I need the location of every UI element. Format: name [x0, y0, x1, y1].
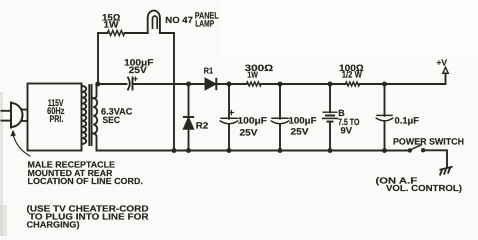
svg-text:25V: 25V — [129, 65, 148, 75]
svg-text:PRI.: PRI. — [49, 114, 63, 125]
svg-text:25V: 25V — [240, 128, 259, 138]
wire top rail: 300 ohm to 100 ohm resistor — [261, 83, 346, 85]
svg-text:25V: 25V — [291, 126, 310, 136]
rectifier R1 — [204, 66, 217, 90]
wire bottom rail — [97, 150, 409, 152]
capacitor C4 0.1uF — [376, 84, 419, 151]
wire top rail: R1 to 300 ohm resistor — [216, 83, 246, 85]
power switch S1 — [393, 137, 464, 153]
wire top rail: 100 ohm to +V terminal — [360, 73, 446, 84]
terminal +V — [437, 57, 449, 73]
transformer T1 primary winding — [82, 86, 86, 144]
wire resistor to lamp — [125, 32, 148, 34]
wire top rail: secondary to series capacitor — [97, 83, 127, 85]
battery B 7.5 to 9V — [323, 84, 360, 151]
node: battery bottom junction — [328, 148, 333, 153]
svg-text:0.1μF: 0.1μF — [395, 115, 420, 125]
wire plug to transformer primary box — [21, 110, 27, 122]
wire switch to ground — [423, 150, 447, 167]
svg-text:9V: 9V — [341, 126, 353, 136]
wire lamp to right vertical — [160, 32, 174, 34]
wire lamp loop left vertical — [97, 33, 99, 84]
svg-text:1/2 W: 1/2 W — [342, 70, 362, 80]
svg-text:VOL. CONTROL): VOL. CONTROL) — [386, 183, 462, 193]
node: battery top junction — [328, 82, 333, 87]
wire top rail: series capacitor to rectifier R1 — [133, 83, 206, 85]
note (USE TV CHEATER-CORD TO PLUG INTO LINE FOR CHARGING) — [27, 204, 150, 230]
node: C4 top junction — [382, 82, 387, 87]
svg-text:R2: R2 — [196, 121, 209, 131]
label 6.3VAC SEC — [101, 107, 133, 126]
node: C3 bottom junction — [278, 148, 283, 153]
male receptacle P1 — [2, 103, 23, 128]
node: C2 bottom junction — [227, 148, 232, 153]
rectifier R2 shunt — [184, 84, 208, 151]
svg-text:LAMP: LAMP — [195, 19, 214, 29]
transformer T1 core — [89, 85, 91, 145]
svg-text:+V: +V — [437, 57, 448, 67]
node: R2 top junction — [186, 82, 191, 87]
capacitor C1 100uF 25V series — [124, 57, 154, 89]
svg-text:POWER SWITCH: POWER SWITCH — [393, 137, 464, 147]
svg-text:1W: 1W — [104, 20, 119, 30]
svg-text:SEC: SEC — [103, 115, 121, 125]
resistor 100 ohm 1/2W — [339, 63, 364, 86]
transformer T1 primary box with 115V 60Hz PRI. label — [28, 84, 82, 151]
node: R2 bottom junction — [186, 148, 191, 153]
svg-text:100μF: 100μF — [289, 116, 317, 126]
lamp NO 47 panel lamp — [148, 11, 219, 34]
node: lamp branch bottom junction — [172, 148, 177, 153]
svg-text:R1: R1 — [204, 66, 214, 76]
arrow from note to receptacle — [10, 130, 30, 156]
svg-text:100μF: 100μF — [238, 116, 268, 126]
resistor 15 ohm 1W — [102, 12, 124, 35]
wire lamp branch right vertical (crosses top rail, no connection) — [173, 33, 175, 151]
node: C3 top junction — [278, 82, 283, 87]
label (ON A.F VOL. CONTROL) — [376, 175, 463, 193]
capacitor C3 100uF 25V — [271, 84, 317, 151]
svg-text:NO 47: NO 47 — [165, 15, 193, 25]
note MALE RECEPTACLE MOUNTED AT REAR LOCATION OF LINE CORD. — [28, 160, 144, 187]
svg-text:1W: 1W — [247, 70, 258, 80]
capacitor C2 100uF 25V — [220, 84, 267, 151]
resistor 300 ohm 1W — [245, 63, 274, 86]
node: secondary top to rail junction — [95, 82, 100, 87]
ground (chassis, on volume control) — [440, 167, 452, 175]
svg-text:CHARGING): CHARGING) — [27, 220, 80, 230]
node: C4 bottom junction — [382, 148, 387, 153]
svg-text:LOCATION OF LINE CORD.: LOCATION OF LINE CORD. — [28, 176, 144, 186]
wire top loop left segment — [98, 32, 108, 34]
node: C2 top junction — [227, 82, 232, 87]
transformer T1 secondary winding with leads — [93, 84, 97, 151]
